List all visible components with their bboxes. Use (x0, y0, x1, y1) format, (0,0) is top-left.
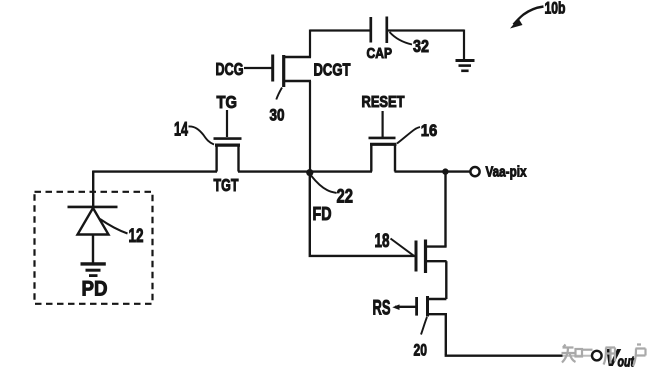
wire FD branch down and right to SF gate (309, 174, 415, 256)
ground (inside PD box) (81, 264, 106, 276)
ground (top right) (456, 61, 475, 71)
wire RS gate lead with small arrowhead (392, 304, 416, 310)
wire DCGT drain stub (283, 56, 312, 58)
photodiode enclosure dashed box (35, 192, 153, 304)
svg-text:DCG: DCG (216, 59, 244, 79)
wire RESET left leg (370, 144, 372, 172)
ref label 18 (375, 230, 390, 252)
label Vaa-pix (486, 164, 528, 181)
svg-text:FD: FD (313, 203, 332, 224)
svg-text:14: 14 (174, 119, 188, 141)
label DCG (216, 59, 244, 79)
svg-text:10b: 10b (545, 0, 566, 18)
wire TGT left leg (215, 145, 217, 172)
value label CAP (367, 46, 393, 62)
ref label 30 (270, 107, 285, 125)
figure reference arrow 10b (510, 7, 544, 29)
ref label 14 (174, 119, 188, 141)
svg-text:RESET: RESET (362, 94, 406, 111)
ref label 22 (337, 186, 354, 208)
wire vertical to top-right ground (463, 30, 465, 61)
svg-text:20: 20 (414, 342, 428, 360)
wire DCGT source down to FD node (309, 81, 311, 172)
wire output rail faint segment under watermark (563, 355, 592, 357)
wire rail corner down into PD box (92, 171, 94, 208)
leader to 32 (390, 32, 413, 45)
capacitor C32 CAP (371, 17, 387, 44)
transistor Q18 source-follower channel bar (424, 240, 427, 274)
ref label 12 (129, 226, 144, 247)
wire SF source down to RS drain (445, 261, 447, 299)
svg-text:22: 22 (337, 186, 354, 208)
svg-text:PD: PD (82, 278, 108, 301)
label DCGT (314, 60, 351, 80)
wire top rail left (DCGT drain to CAP) (310, 29, 370, 31)
terminal Vaa-pix open circle (470, 167, 479, 176)
node FD junction dot (306, 169, 313, 176)
label Vout (605, 345, 635, 371)
label PD (82, 278, 108, 301)
leader to 20 (421, 317, 427, 335)
ref label 16 (421, 121, 438, 140)
svg-text:30: 30 (270, 107, 285, 125)
transistor Q20 row-select channel bar (426, 296, 429, 317)
node label FD (313, 203, 332, 224)
transistor Q18 source-follower gate bar (415, 241, 418, 272)
transistor Q16 RESET channel bar (370, 143, 397, 146)
svg-text:CAP: CAP (367, 46, 393, 62)
wire PD anode down to ground (92, 235, 94, 264)
transistor Q20 row-select gate bar (415, 297, 418, 316)
label TG (217, 92, 238, 112)
transistor Q14 TGT channel bar (215, 144, 240, 147)
leader to 22 (311, 176, 337, 193)
svg-text:12: 12 (129, 226, 144, 247)
node Vaa-pix junction dot (442, 168, 448, 174)
label RS (373, 297, 391, 320)
label RESET (362, 94, 406, 111)
svg-text:16: 16 (421, 121, 438, 140)
svg-text:Vaa-pix: Vaa-pix (486, 164, 528, 181)
wire SF drain stub (426, 245, 447, 247)
wire vertical DCGT drain up to top rail (309, 30, 311, 58)
photodiode D12 PD (68, 207, 118, 235)
svg-text:DCGT: DCGT (314, 60, 351, 80)
wire TGT right leg (237, 145, 239, 172)
svg-text:RS: RS (373, 297, 391, 320)
wire main rail left (PD corner to TGT) (93, 170, 217, 172)
watermark zhihu user (562, 345, 646, 367)
ref label 10b (545, 0, 566, 18)
svg-text:TG: TG (217, 92, 238, 112)
svg-text:18: 18 (375, 230, 390, 252)
wire RESET gate lead (382, 111, 384, 137)
leader to 30 (276, 88, 282, 100)
ref label 32 (413, 36, 429, 56)
label TGT (214, 175, 239, 195)
leader from 14 (189, 126, 215, 144)
transistor Q14 TGT gate bar (214, 137, 242, 140)
wire main rail right (RESET to Vaa-pix) (395, 170, 471, 172)
ref label 20 (414, 342, 428, 360)
leader to 12 (100, 219, 128, 234)
leader from 18 (391, 239, 414, 256)
transistor Q30 DCGT gate bar (271, 55, 274, 82)
svg-text:out: out (618, 355, 635, 371)
wire RESET right leg (394, 144, 396, 172)
wire RS source and down to output rail (428, 314, 446, 355)
terminal Vout open circle (592, 351, 602, 361)
transistor Q16 RESET gate bar (369, 137, 396, 140)
wire DCG gate lead (244, 67, 272, 69)
wire output rail bottom (445, 355, 563, 357)
svg-text:TGT: TGT (214, 175, 239, 195)
wire RS drain stub (428, 298, 447, 300)
wire top rail right (CAP to ground) (388, 29, 465, 31)
svg-text:32: 32 (413, 36, 429, 56)
wire Vaa-pix junction down to SF drain (444, 172, 446, 247)
wire TG gate lead (226, 110, 228, 137)
wire SF source stub (426, 260, 447, 262)
wire main rail middle (TGT to RESET) (238, 170, 372, 172)
leader to 16 (397, 127, 420, 144)
wire DCGT source stub (283, 80, 312, 82)
transistor Q30 DCGT channel bar (282, 55, 285, 87)
